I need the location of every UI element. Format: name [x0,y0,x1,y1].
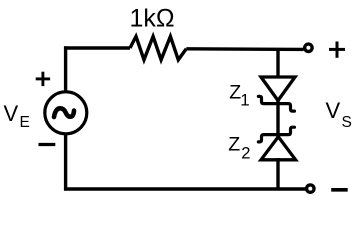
svg-text:1kΩ: 1kΩ [130,4,175,32]
svg-text:E: E [20,114,30,131]
sine symbol inside source [54,108,74,117]
wire: top horizontal right segment (resistor to + terminal) [186,47,303,51]
wire: top horizontal left segment (source to resistor) [64,46,130,49]
zener diode Z1 (cathode down) [258,77,295,111]
wire: bottom horizontal [64,187,306,190]
svg-text:V: V [326,98,341,123]
node: - output terminal (open circle) [307,185,314,192]
wire: right branch from top wire to Z1 [276,49,279,78]
svg-text:S: S [342,114,352,131]
polarity - of source VE [39,143,56,146]
wire: between Z1 and Z2 [276,100,279,137]
wire: right branch from Z2 to bottom wire [276,158,279,189]
polarity + at output [329,42,345,58]
svg-text:2: 2 [241,144,250,162]
voltage source VE (AC source circle) [45,92,87,134]
resistor R1 1kΩ (zigzag) [130,36,186,59]
node: + output terminal (open circle) [305,44,312,51]
polarity + of source VE [36,72,50,86]
polarity - at output [331,188,348,192]
wire: left vertical top (top wire down to source) [64,46,67,92]
svg-text:V: V [4,101,19,126]
svg-text:1: 1 [240,91,249,110]
svg-text:Z: Z [228,133,240,155]
wire: left vertical bottom (source to bottom wire) [64,133,67,191]
zener diode Z2 (cathode up) [258,127,295,160]
